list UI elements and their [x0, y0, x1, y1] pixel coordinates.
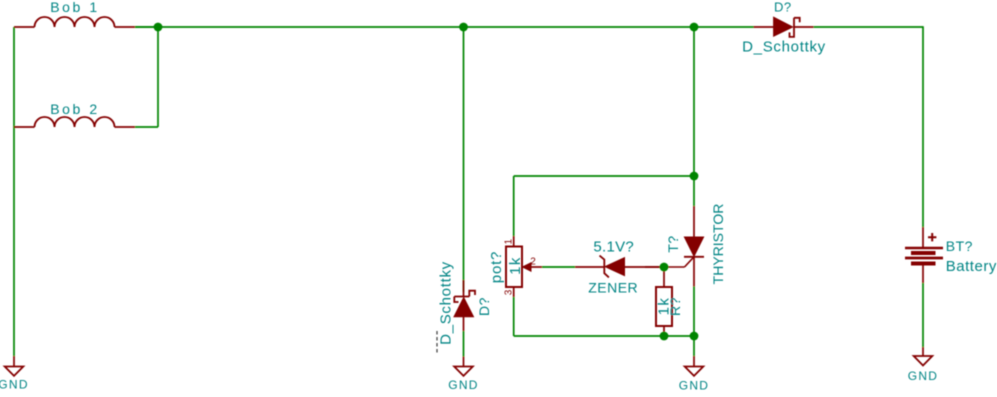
- wire: loop bottom horizontal: [514, 335, 694, 337]
- wire: top main horizontal: [135, 26, 754, 28]
- wire: thyristor rail vertical: [693, 27, 695, 206]
- junction above thyristor: [690, 23, 699, 32]
- svg-text:ZENER: ZENER: [588, 280, 638, 296]
- junction loop top right: [690, 172, 699, 181]
- wire: right rail vertical to battery: [922, 26, 924, 227]
- wire: loop left vertical lower (pot pin3 to bottom): [513, 297, 515, 336]
- inductor L1 Bob 1: [14, 17, 135, 27]
- thyristor T?: [664, 206, 704, 287]
- battery BT?: [905, 227, 943, 283]
- junction bottom R: [660, 332, 669, 341]
- svg-text:D_Schottky: D_Schottky: [742, 39, 826, 56]
- wire: Bob2 vertical up to junction: [157, 27, 159, 127]
- svg-text:2: 2: [530, 257, 536, 268]
- wire: mid diode to GND: [463, 331, 465, 357]
- svg-text:GND: GND: [0, 378, 29, 392]
- wire: mid vertical to Schottky diode D?: [463, 27, 465, 292]
- svg-text:1k: 1k: [507, 256, 524, 275]
- svg-text:D?: D?: [476, 297, 492, 316]
- wire: thyristor cathode down to bottom wire: [693, 287, 695, 357]
- svg-text:GND: GND: [679, 379, 710, 393]
- junction bottom thyristor: [690, 332, 699, 341]
- svg-text:1: 1: [504, 238, 515, 244]
- junction gate node: [660, 263, 669, 272]
- wire: pot wiper to zener: [542, 266, 575, 268]
- resistor R?: [656, 267, 672, 336]
- svg-text:Battery: Battery: [946, 258, 997, 275]
- potentiometer RV? pot?: [506, 236, 542, 297]
- svg-text:GND: GND: [908, 369, 939, 383]
- wire: Bob1 right end to junction: [135, 26, 158, 28]
- GND right-middle: [685, 356, 704, 376]
- svg-text:R?: R?: [667, 297, 683, 316]
- GND middle: [454, 357, 473, 376]
- svg-text:D_Schottky: D_Schottky: [438, 261, 455, 345]
- svg-text:D?: D?: [774, 0, 792, 15]
- GND battery: [914, 347, 933, 366]
- diode D? vertical Schottky (anode bottom): [454, 280, 475, 331]
- dashed mark near D_Schottky: [436, 331, 438, 355]
- svg-text:T?: T?: [665, 235, 681, 252]
- diode D? horizontal Schottky: [754, 17, 814, 37]
- wire: battery to GND: [922, 283, 924, 347]
- zener diode 5.1V?: [575, 256, 664, 278]
- junction above mid diode: [459, 23, 468, 32]
- junction at Bob1 output: [154, 23, 163, 32]
- svg-text:BT?: BT?: [946, 238, 973, 254]
- GND left: [5, 356, 24, 376]
- svg-text:3: 3: [504, 289, 515, 295]
- svg-text:GND: GND: [448, 378, 479, 392]
- wire: loop top horizontal: [514, 175, 694, 177]
- wire: loop left vertical upper (to pot pin1): [513, 176, 515, 236]
- inductor L2 Bob 2: [14, 117, 135, 127]
- wire: Bob2 right end horizontal: [135, 126, 158, 128]
- wire: top right segment after diode D?: [814, 26, 923, 28]
- svg-text:Bob 1: Bob 1: [50, 0, 100, 15]
- wire: zener to gate node: [645, 266, 664, 268]
- svg-text:pot?: pot?: [488, 251, 505, 283]
- svg-text:THYRISTOR: THYRISTOR: [710, 204, 726, 285]
- wire: left rail vertical: [13, 27, 15, 356]
- svg-text:5.1V?: 5.1V?: [593, 239, 634, 256]
- svg-text:Bob 2: Bob 2: [50, 101, 100, 117]
